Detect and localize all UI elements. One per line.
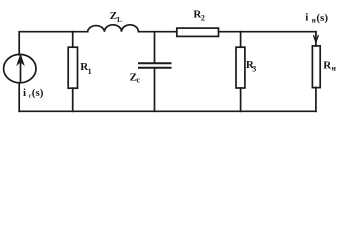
resistor R3 (236, 47, 245, 88)
wire inductor to R2 (138, 31, 176, 33)
resistor R1 (68, 47, 77, 88)
load current arrow (314, 36, 319, 43)
current source circle (4, 54, 36, 82)
current source arrow (18, 56, 23, 82)
wire Zc top stub (154, 32, 156, 63)
wire Zc bottom stub (154, 69, 156, 112)
svg-text:i: i (23, 87, 26, 99)
wire R3 bottom stub (240, 88, 242, 111)
wire R3 top stub (240, 32, 242, 48)
svg-text:1: 1 (88, 67, 92, 76)
svg-text:(s): (s) (316, 12, 328, 24)
wire bottom rail (19, 110, 316, 112)
wire source bottom to bottom rail (18, 83, 20, 111)
svg-text:н: н (332, 64, 337, 73)
wire top-left corner segment (19, 32, 87, 55)
inductor ZL (88, 25, 139, 32)
svg-text:(s): (s) (32, 87, 44, 99)
wire corner down to Rn (315, 32, 317, 46)
capacitor Zc (139, 63, 171, 68)
svg-text:i: i (305, 12, 308, 24)
svg-text:L: L (117, 15, 122, 24)
svg-text:2: 2 (201, 14, 205, 23)
svg-text:c: c (137, 75, 141, 84)
svg-text:3: 3 (252, 64, 256, 73)
svg-text:н: н (312, 16, 316, 24)
wire R2 to top-right corner (219, 31, 316, 33)
wire R1 top stub (72, 32, 74, 48)
wire R1 bottom stub (72, 88, 74, 111)
resistor R2 (177, 28, 219, 36)
wire Rn bottom stub (315, 88, 317, 112)
resistor Rn (312, 46, 320, 88)
